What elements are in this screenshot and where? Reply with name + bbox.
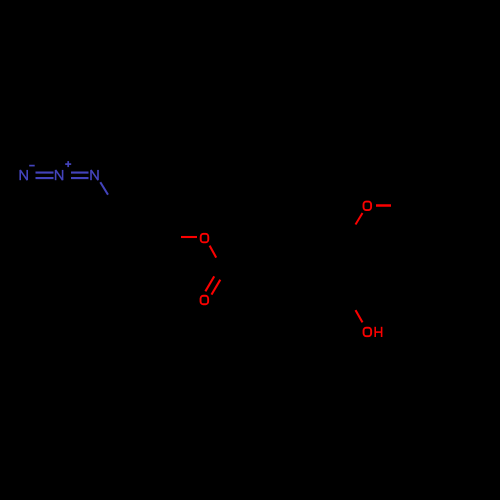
- bond N3-CH2 half (blue): [100, 182, 108, 195]
- bond O-C(carbonyl) half (red): [210, 246, 217, 258]
- atom O ether: [364, 202, 372, 211]
- double bond C=O halves (red): [205, 276, 220, 294]
- charge plus on N2: [65, 161, 71, 167]
- charge minus on N1: [29, 165, 35, 167]
- atom N2 (azide central nitrogen, positive): [56, 170, 63, 180]
- bond ring C-O ether half (red): [356, 213, 363, 225]
- bond ring C-OH half (red): [356, 310, 363, 322]
- atom O carbonyl: [201, 296, 209, 305]
- atom O of phenol OH: [364, 328, 372, 337]
- atom O ester: [201, 234, 209, 243]
- bond CH2-O ester half (red): [181, 236, 197, 238]
- atom N1 (azide terminal nitrogen, negative): [20, 170, 27, 180]
- double bond N1=N2: [36, 173, 54, 179]
- atom H of phenol OH: [375, 327, 381, 337]
- double bond N2=N3: [71, 173, 89, 179]
- bond O-CH2(benzyl) half (red, horizontal): [376, 204, 391, 207]
- atom N3 (azide nitrogen bonded to propyl chain): [91, 170, 98, 180]
